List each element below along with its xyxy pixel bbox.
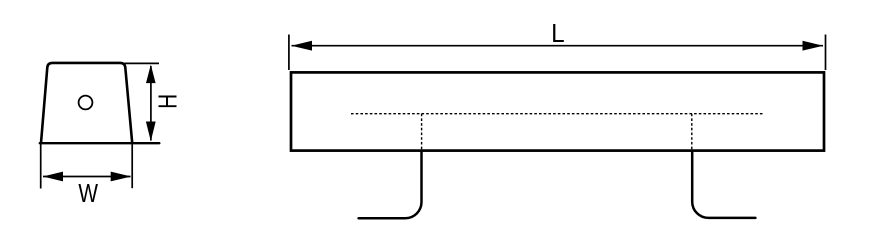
channel body side-view rectangle [291,72,824,150]
L left extension line [288,35,290,71]
right mounting leg [692,151,755,218]
svg-text:W: W [78,179,98,208]
mounting hole circle [79,96,93,110]
H dimension arrowhead top [146,65,156,84]
left mounting leg [359,151,422,218]
hidden (dotted) centre line [351,113,764,115]
hidden (dotted) right leg line [691,114,693,150]
svg-text:L: L [551,20,565,49]
L dimension line [292,45,824,47]
H dimension line [150,66,152,141]
W dimension arrowhead right [111,172,131,182]
hidden (dotted) left leg line [421,114,423,150]
trapezoid end-view body [41,63,132,143]
W dimension line [43,176,131,178]
trapezoid bottom edge (extended right as H extension line) [40,142,160,144]
H dimension arrowhead bottom [146,122,156,142]
W right extension line [131,144,133,188]
W dimension arrowhead left [43,172,63,182]
L dimension arrowhead left [291,41,312,51]
W left extension line [40,144,42,189]
L right extension line [825,35,827,71]
H top extension line [125,62,160,64]
svg-text:H: H [154,94,183,109]
L dimension arrowhead right [803,41,824,51]
